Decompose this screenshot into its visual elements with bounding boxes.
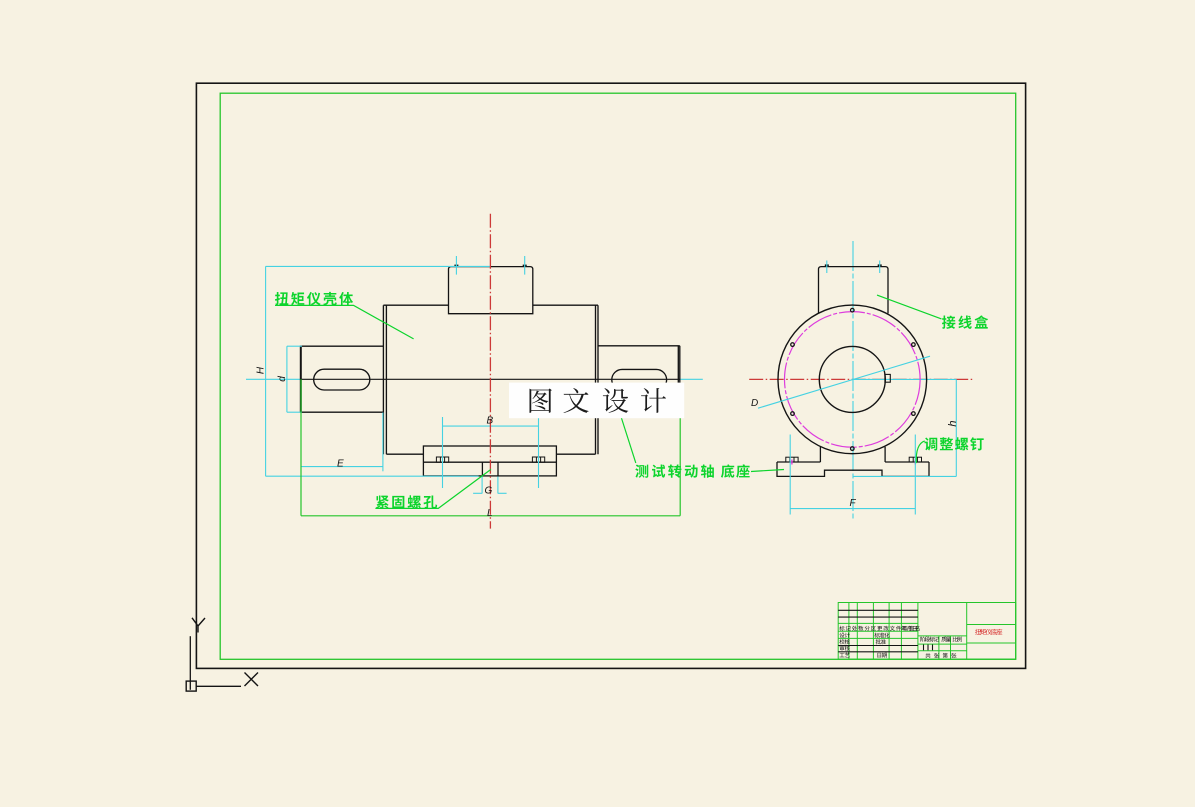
watermark text 图文设计: [529, 388, 551, 412]
right shaft: [598, 346, 680, 412]
dimension D diagonal: [758, 356, 930, 408]
watermark box: [509, 383, 684, 419]
label 紧固螺孔 leader: [375, 469, 491, 508]
bolt circle magenta: [785, 312, 921, 448]
svg-text:B: B: [487, 416, 494, 427]
left shaft keyway slot: [314, 369, 370, 390]
svg-text:d: d: [277, 376, 288, 382]
cyan horizontal extension right view: [852, 378, 956, 380]
shaft axis black line: [301, 378, 680, 380]
svg-text:L: L: [487, 508, 493, 519]
svg-text:h: h: [947, 420, 959, 426]
junction box right view: [819, 267, 889, 314]
title block: [838, 603, 1016, 660]
label 测试转动轴 leader: [620, 414, 636, 464]
label 紧固螺孔: [376, 495, 389, 508]
dimension H vertical: [266, 266, 491, 476]
label 扭矩仪壳体: [275, 292, 288, 305]
UCS axis vertical line: [189, 636, 191, 690]
label 扭矩仪壳体 leader: [275, 305, 414, 339]
box bolt nubs right view: [825, 264, 829, 266]
UCS axis icon Y arrow: [192, 618, 205, 633]
red vertical centerline left view: [489, 214, 491, 529]
screw magenta dots: [791, 460, 793, 465]
right shaft keyway slot: [612, 369, 667, 390]
svg-text:F: F: [850, 498, 857, 509]
main housing body: [383, 305, 598, 454]
dimension L green: [301, 379, 680, 516]
label 接线盒: [942, 316, 955, 329]
UCS X glyph: [245, 673, 259, 687]
top junction box left view: [449, 267, 533, 314]
UCS X axis line: [196, 685, 241, 687]
label 接线盒 leader: [877, 295, 942, 319]
label 调整螺钉: [924, 437, 937, 450]
dimension h vertical: [853, 379, 957, 476]
dimension G bracket: [473, 477, 507, 494]
fastening screws on base plate: [436, 457, 544, 462]
bore keyway notch: [885, 374, 890, 382]
dimension labels: [256, 366, 959, 519]
mounting foot right view: [777, 447, 929, 477]
svg-text:G: G: [485, 486, 493, 497]
dimension F horizontal: [790, 435, 915, 515]
dimension E horizontal: [301, 413, 383, 472]
sheet outer border: [196, 83, 1025, 668]
svg-text:H: H: [256, 366, 267, 374]
bolt tick centerlines: [455, 256, 457, 275]
title block tiny text: [839, 626, 844, 631]
label 底座: [721, 464, 734, 477]
title block red part name: [975, 629, 981, 635]
label 调整螺钉 leader: [916, 441, 924, 463]
label 测试转动轴: [635, 465, 648, 478]
six bolt holes: [851, 308, 855, 312]
dimension d vertical: [287, 346, 302, 412]
UCS origin square: [186, 681, 196, 691]
svg-text:E: E: [337, 459, 344, 470]
red horizontal centerline right view: [749, 378, 974, 380]
bore circle: [819, 346, 885, 412]
screw hidden centerlines magenta: [442, 459, 444, 475]
outer housing circle: [778, 305, 927, 454]
svg-text:D: D: [751, 398, 758, 409]
label 底座 leader: [751, 470, 784, 472]
sheet inner green border: [220, 93, 1016, 659]
cyan horizontal centerline left view: [246, 378, 301, 380]
left shaft: [301, 346, 384, 413]
dimension B horizontal: [443, 417, 539, 488]
adjusting screws on foot: [786, 457, 922, 462]
cyan vertical centerline right view: [852, 241, 854, 521]
base plate left view: [423, 446, 556, 476]
junction box bolt nubs: [454, 265, 458, 267]
